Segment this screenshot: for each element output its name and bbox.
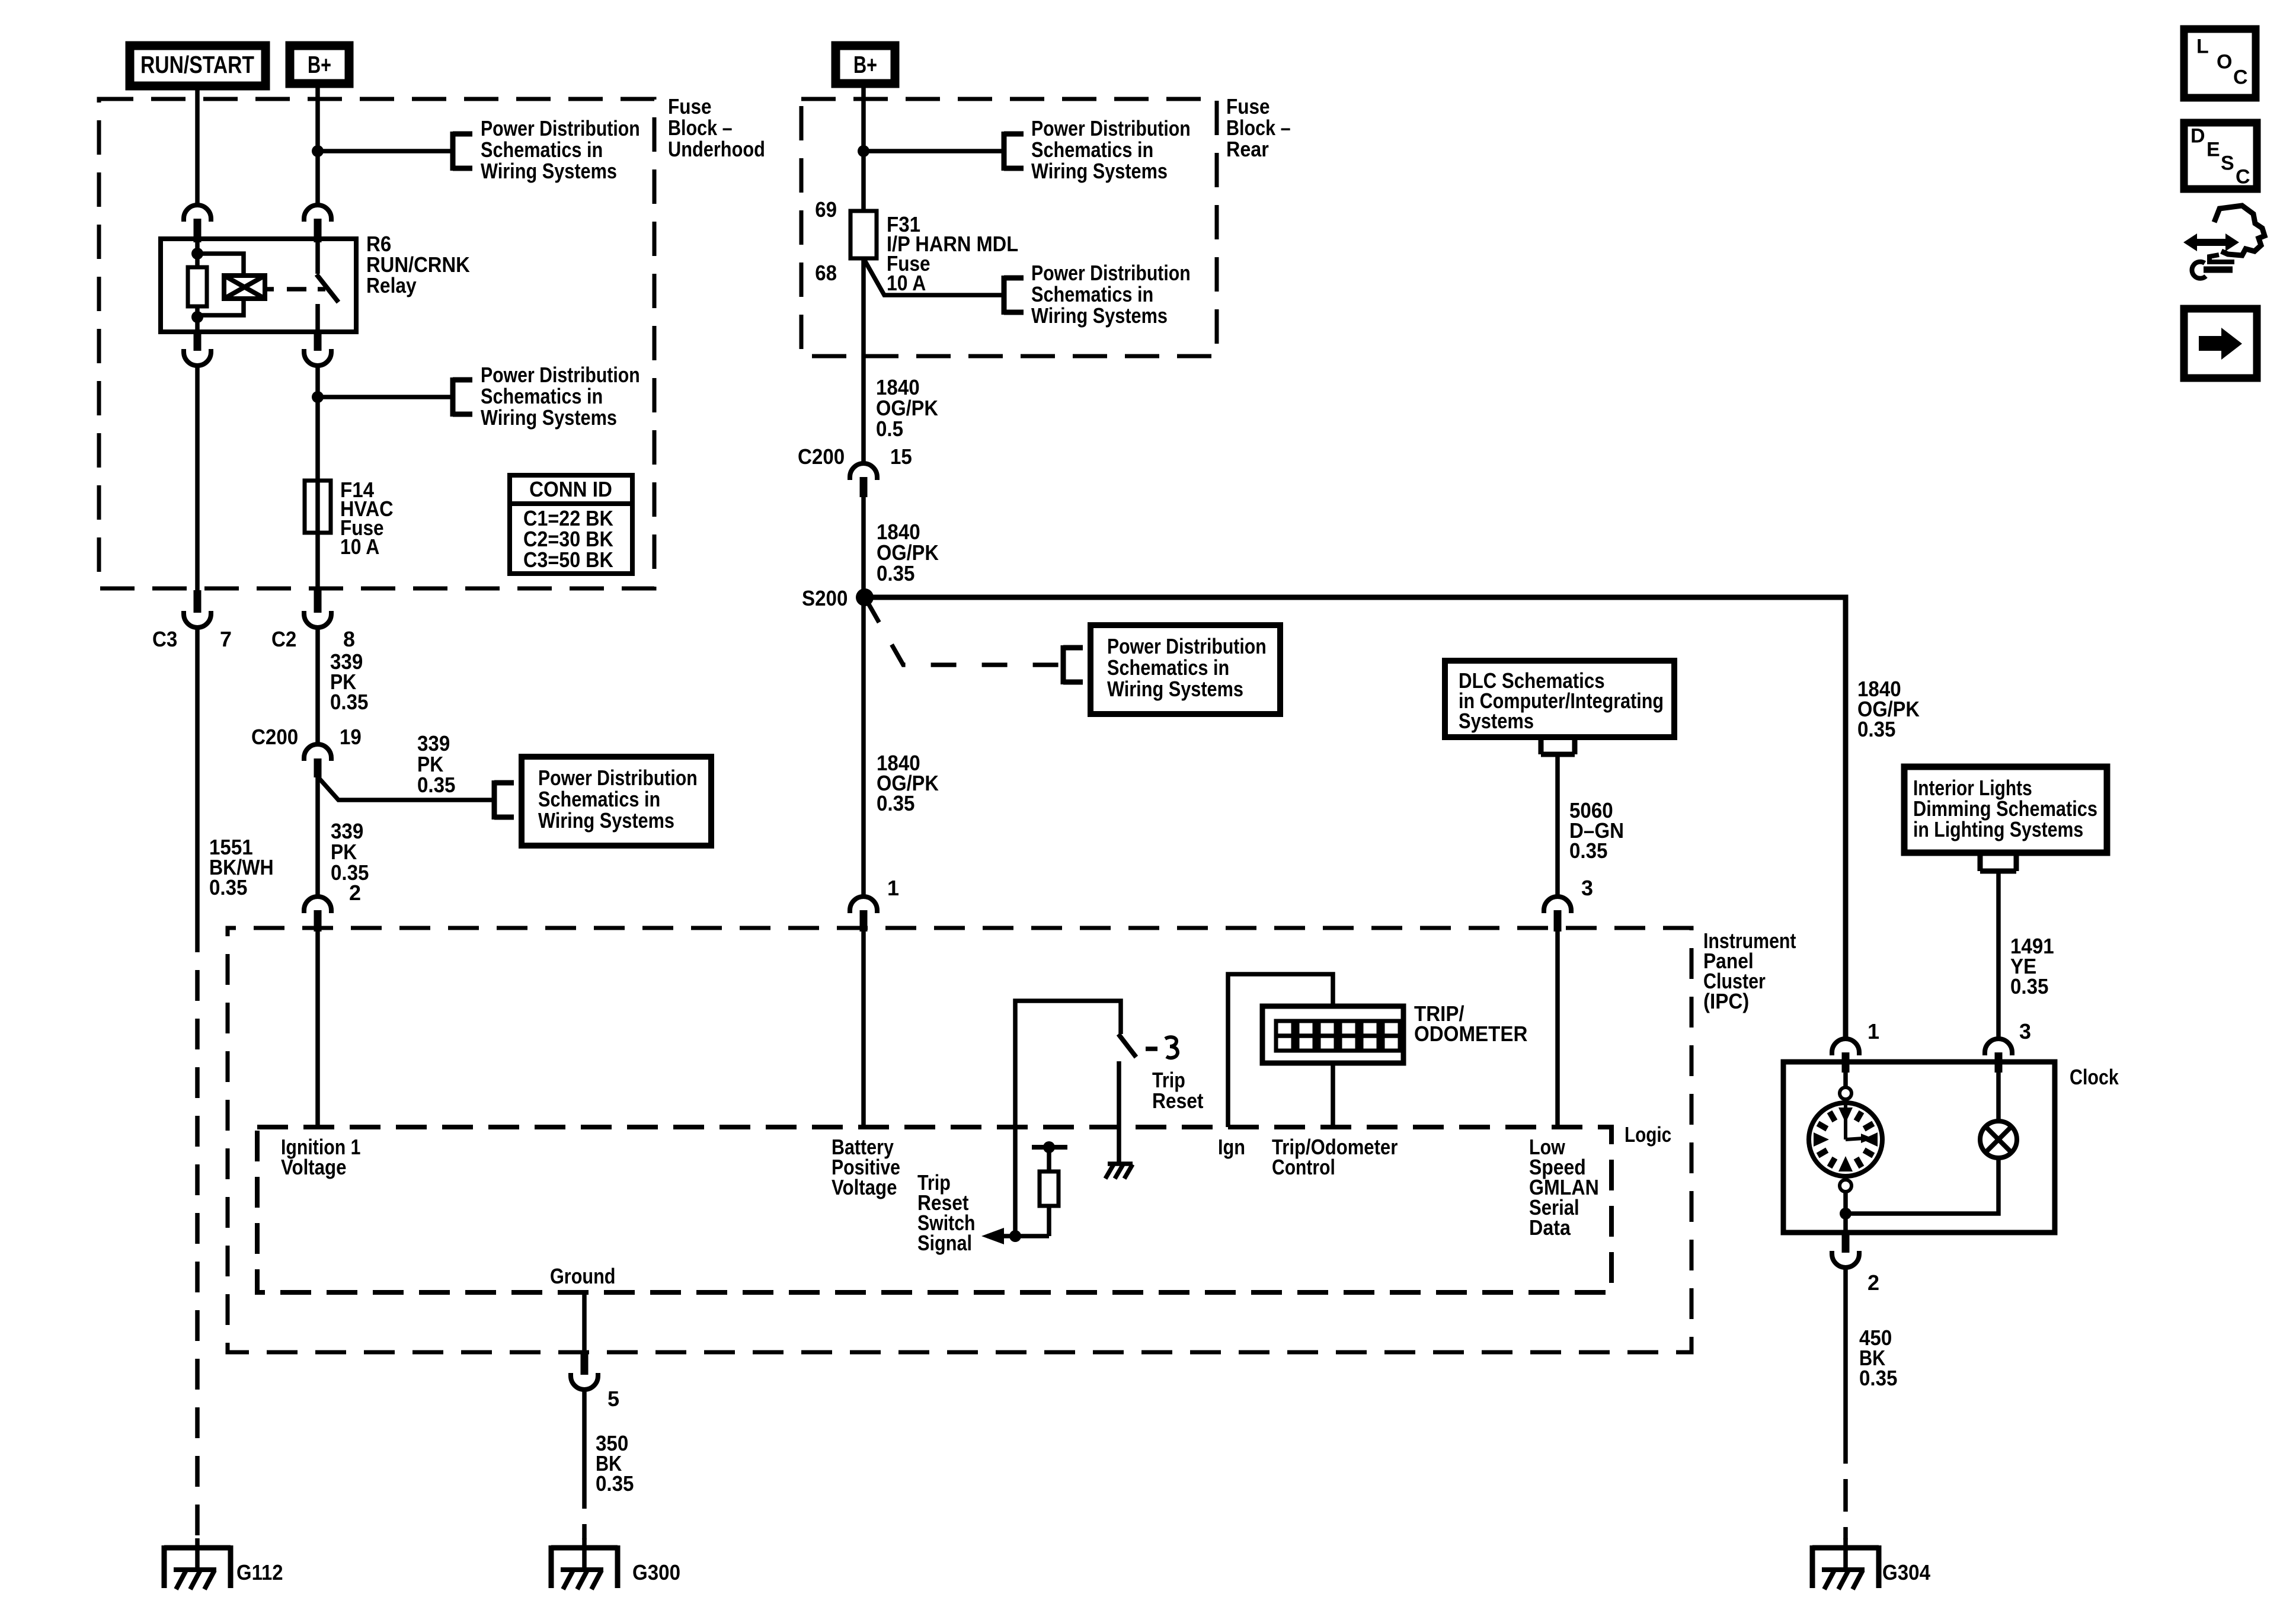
DLC schematics reference box	[1445, 661, 1674, 737]
relay R6 coil branch wires	[197, 239, 244, 276]
svg-text:Power Distribution: Power Distribution	[481, 116, 640, 140]
label Low Speed GMLAN Serial Data	[1529, 1135, 1599, 1240]
relay R6 coil-side top connector	[184, 205, 211, 242]
ground G300	[551, 1538, 618, 1589]
wire S200 to clock branch (long horizontal)	[865, 597, 1846, 1039]
svg-text:Underhood: Underhood	[668, 137, 765, 161]
svg-text:15: 15	[890, 444, 912, 469]
svg-text:B+: B+	[853, 51, 877, 78]
connector clock pin 2 exit	[1832, 1233, 1859, 1267]
svg-text:0.35: 0.35	[330, 690, 369, 714]
label Trip/Odometer Control	[1272, 1135, 1398, 1179]
svg-text:0.35: 0.35	[596, 1471, 634, 1496]
svg-text:Wiring Systems: Wiring Systems	[1031, 303, 1168, 328]
svg-text:ODOMETER: ODOMETER	[1414, 1022, 1527, 1046]
wire ground logic to IPC boundary	[582, 1292, 587, 1352]
off-page reference bracket 5	[1004, 276, 1024, 315]
power feed box RUN/START	[130, 46, 266, 86]
svg-text:G112: G112	[236, 1560, 283, 1585]
relay R6 label	[366, 232, 470, 297]
svg-text:Reset: Reset	[1152, 1089, 1204, 1113]
wire odometer display to logic	[1331, 1063, 1335, 1127]
label clock pin 1	[1868, 1019, 1879, 1044]
wire resistor to signal node	[987, 1206, 1049, 1236]
svg-text:Fuse: Fuse	[668, 94, 712, 119]
label Ign	[1218, 1135, 1245, 1159]
DLC reference connector bracket	[1541, 737, 1575, 754]
relay R6 coil bottom wire	[197, 299, 244, 329]
svg-text:Voltage: Voltage	[832, 1175, 897, 1199]
svg-text:Power Distribution: Power Distribution	[1107, 634, 1267, 658]
wire junction to relay switch pin	[315, 151, 320, 205]
label Logic	[1625, 1122, 1671, 1147]
relay R6 coil-side bottom connector	[184, 329, 211, 366]
interior lights reference connector bracket	[1980, 854, 2016, 871]
signal arrow	[981, 1228, 1004, 1244]
instrument panel cluster label	[1703, 929, 1796, 1013]
wire IPC pin 2 to logic	[315, 932, 320, 1127]
label clock pin 2	[1868, 1270, 1879, 1295]
label clock pin 3	[2019, 1019, 2031, 1044]
relay R6 switch blade	[316, 274, 338, 302]
svg-text:Rear: Rear	[1226, 137, 1269, 161]
power feed box B+ (underhood)	[290, 46, 349, 84]
svg-text:G300: G300	[632, 1560, 680, 1585]
fuse F31 label	[887, 212, 1018, 295]
relay R6 switch fixed contact	[315, 239, 320, 274]
wire relay coil to fuse block exit C3-7	[195, 365, 200, 590]
svg-text:Wiring Systems: Wiring Systems	[1107, 677, 1243, 701]
ground G304	[1812, 1538, 1879, 1589]
label pin 1 (battery positive)	[887, 876, 899, 900]
svg-text:C2: C2	[271, 627, 296, 651]
svg-text:0.35: 0.35	[1857, 717, 1896, 741]
relay R6 switch lower contact	[315, 304, 320, 329]
fuse block underhood dashed boundary	[99, 99, 654, 588]
power distribution reference 6 box	[1091, 625, 1280, 714]
relay R6 coil junction dot top	[191, 248, 203, 260]
wire B+ box down to junction	[315, 84, 320, 151]
svg-text:Fuse: Fuse	[1226, 94, 1270, 119]
connector IPC pin 5 exit	[571, 1354, 598, 1390]
wire S200 down to IPC pin 1	[861, 597, 866, 897]
wire 450 BK to G304	[1843, 1267, 1848, 1539]
icon connector location view (arrows and wrench)	[2183, 206, 2265, 279]
power feed box B+ (rear)	[836, 46, 895, 84]
off-page reference bracket 3	[494, 780, 514, 820]
label 1551 BK/WH 0.35	[209, 835, 274, 900]
svg-text:19: 19	[340, 725, 362, 749]
svg-text:Wiring Systems: Wiring Systems	[1031, 159, 1168, 183]
svg-text:0.35: 0.35	[2010, 974, 2049, 998]
label C3	[152, 627, 177, 651]
wire C200-19 to IPC pin 2	[315, 777, 320, 897]
label 1840 OG/PK 0.35 above S200	[877, 520, 939, 585]
svg-text:2: 2	[1868, 1270, 1879, 1295]
junction dot B+ rear	[858, 145, 869, 157]
ground G112	[164, 1538, 231, 1589]
label 1840 OG/PK 0.35 right branch	[1857, 677, 1920, 741]
label pin 69	[815, 197, 837, 222]
label TRIP/ODOMETER	[1414, 1001, 1527, 1046]
svg-text:O: O	[2217, 50, 2232, 73]
label 350 BK 0.35	[596, 1431, 634, 1496]
icon LOC box	[2184, 29, 2256, 98]
svg-text:C3=50 BK: C3=50 BK	[523, 548, 613, 572]
relay R6 switch-side top connector	[304, 205, 331, 242]
wire IPC pin 3 to logic	[1555, 932, 1560, 1127]
label pin 68	[815, 261, 837, 285]
label 1840 OG/PK 0.5	[876, 375, 938, 441]
label Clock	[2070, 1065, 2119, 1089]
off-page reference bracket 2	[453, 377, 472, 417]
svg-text:Schematics in: Schematics in	[1031, 282, 1153, 306]
svg-text:Voltage: Voltage	[281, 1155, 347, 1179]
splice S200 junction dot	[856, 588, 874, 606]
power distribution reference 4 label	[1031, 116, 1191, 183]
label pin 8	[343, 627, 355, 651]
wire 1551 BK/WH dashed to G112	[195, 921, 200, 1539]
connector C2 pin 8 exit	[304, 590, 331, 628]
label G304	[1882, 1560, 1930, 1585]
svg-text:Power Distribution: Power Distribution	[481, 363, 640, 387]
wire 1491 YE to clock pin 3	[1996, 871, 2001, 1039]
svg-text:B+: B+	[308, 51, 331, 78]
svg-text:D: D	[2191, 124, 2205, 147]
svg-text:Schematics in: Schematics in	[481, 384, 603, 408]
svg-text:C3: C3	[152, 627, 177, 651]
off-page reference bracket 6	[1063, 645, 1083, 684]
label G112	[236, 1560, 283, 1585]
label 1491 YE 0.35	[2010, 934, 2054, 998]
junction dot B+ underhood	[312, 145, 324, 157]
svg-text:Systems: Systems	[1459, 709, 1534, 733]
label pin 7	[220, 627, 232, 651]
label 339 PK 0.35 lower	[331, 819, 369, 885]
label 1840 OG/PK 0.35 below S200	[877, 751, 939, 815]
wire junction to power distribution reference 1	[318, 149, 453, 153]
svg-text:C: C	[2236, 165, 2250, 188]
connector IPC pin 1 entry	[850, 897, 877, 932]
svg-text:Control: Control	[1272, 1155, 1335, 1179]
svg-text:S200: S200	[802, 586, 848, 610]
svg-text:Block –: Block –	[1226, 116, 1291, 140]
svg-text:C200: C200	[251, 725, 298, 749]
connector IPC pin 2 entry	[304, 897, 331, 932]
svg-text:Ign: Ign	[1218, 1135, 1245, 1159]
junction dot on crossbar	[1043, 1141, 1055, 1153]
svg-text:L: L	[2196, 35, 2209, 57]
odometer digit cells	[1276, 1021, 1400, 1051]
icon DESC box	[2184, 123, 2257, 189]
svg-text:8: 8	[343, 627, 355, 651]
wire junction to power distribution reference 4	[864, 149, 1004, 153]
fuse block rear dashed boundary	[801, 99, 1217, 356]
svg-text:0.35: 0.35	[877, 561, 915, 585]
fuse F14 label	[340, 478, 394, 559]
fuse F14	[305, 481, 331, 533]
svg-text:68: 68	[815, 261, 837, 285]
svg-text:69: 69	[815, 197, 837, 222]
wire crossbar to resistor	[1047, 1147, 1051, 1172]
svg-text:Data: Data	[1529, 1215, 1571, 1240]
relay R6 switch-side bottom connector	[304, 329, 331, 366]
resistor (pull-up)	[1040, 1172, 1059, 1206]
wire C200-15 to S200	[861, 497, 866, 597]
wire F31 down to C200-15	[861, 258, 866, 463]
svg-text:Power Distribution: Power Distribution	[538, 766, 698, 790]
trip reset switch blade	[1118, 1034, 1136, 1057]
svg-text:RUN/START: RUN/START	[140, 51, 254, 78]
wire relay switch to junction 2	[315, 365, 320, 397]
svg-text:S: S	[2221, 152, 2234, 174]
wire F31 to power distribution reference 5	[864, 258, 1004, 295]
relay R6 coil junction dot bottom	[191, 311, 203, 323]
label C2	[271, 627, 296, 651]
svg-text:Schematics in: Schematics in	[1031, 137, 1153, 162]
clock symbol	[1809, 1087, 1882, 1192]
CONN ID table	[510, 475, 632, 574]
svg-text:5: 5	[607, 1387, 619, 1411]
svg-text:0.35: 0.35	[417, 773, 456, 797]
svg-text:1: 1	[887, 876, 899, 900]
clock wires inside	[1846, 1073, 1998, 1233]
svg-text:Signal: Signal	[917, 1231, 972, 1255]
wire branch C200-19 to power distribution reference 3	[319, 778, 494, 800]
label 339 PK 0.35 branch	[417, 731, 456, 797]
svg-text:0.35: 0.35	[1859, 1366, 1898, 1390]
power distribution reference 1 label	[481, 116, 640, 183]
wire junction to fuse F31	[861, 151, 866, 211]
svg-text:G304: G304	[1882, 1560, 1930, 1585]
relay R6 box	[161, 239, 356, 332]
label pin 3 (GMLAN)	[1581, 876, 1593, 900]
wire B+ rear down to junction	[861, 84, 866, 151]
relay R6 coil (box with X)	[224, 276, 265, 299]
label Ground	[550, 1264, 616, 1288]
connector C200 pin 15 in-line	[850, 463, 877, 497]
label 5060 D-GN 0.35	[1569, 798, 1624, 863]
svg-text:Wiring Systems: Wiring Systems	[538, 808, 674, 833]
svg-text:Logic: Logic	[1625, 1122, 1671, 1147]
svg-text:2: 2	[349, 881, 361, 905]
connector clock pin 1 entry	[1832, 1039, 1859, 1073]
connector C3 pin 7 exit	[184, 590, 211, 628]
svg-text:Power Distribution: Power Distribution	[1031, 261, 1191, 285]
svg-text:0.35: 0.35	[209, 875, 248, 900]
svg-text:Relay: Relay	[366, 273, 417, 297]
connector C200 pin 19 in-line	[304, 744, 331, 777]
label pin 19	[340, 725, 362, 749]
svg-text:Schematics in: Schematics in	[1107, 655, 1229, 680]
interior lights dimming reference box	[1904, 767, 2107, 853]
svg-text:1: 1	[1868, 1019, 1879, 1044]
svg-text:E: E	[2207, 138, 2220, 161]
svg-text:CONN ID: CONN ID	[529, 477, 612, 501]
svg-text:(IPC): (IPC)	[1703, 989, 1749, 1013]
trip reset switch wires	[1015, 1001, 1121, 1236]
wire Ign to trip odometer display	[1228, 974, 1333, 1127]
power distribution reference 2 label	[481, 363, 640, 430]
label pin 5	[607, 1387, 619, 1411]
svg-text:0.35: 0.35	[877, 791, 915, 815]
svg-text:Schematics in: Schematics in	[538, 787, 660, 811]
svg-text:in Lighting Systems: in Lighting Systems	[1913, 817, 2083, 841]
wire DLC to IPC pin 3	[1555, 754, 1560, 897]
wire junction 2 to power distribution reference 2	[318, 395, 453, 399]
dashed wire S200 to power distribution reference 6	[866, 600, 1063, 665]
svg-text:Block –: Block –	[668, 116, 733, 140]
trip reset signal crossbar	[1032, 1145, 1067, 1150]
svg-text:Wiring Systems: Wiring Systems	[481, 159, 617, 183]
label Ignition 1 Voltage	[281, 1135, 360, 1179]
svg-text:Wiring Systems: Wiring Systems	[481, 405, 617, 430]
svg-text:10 A: 10 A	[887, 271, 926, 295]
label Trip Reset Switch Signal	[917, 1170, 976, 1255]
svg-text:C: C	[2233, 66, 2248, 88]
chassis ground at trip reset switch	[1105, 1164, 1133, 1179]
label C200 (19)	[251, 725, 298, 749]
trip reset switch lower contact	[1117, 1061, 1121, 1162]
fuse block rear label	[1226, 94, 1291, 161]
off-page reference bracket 1	[453, 132, 472, 171]
wire C2-8 to C200-19	[315, 628, 320, 744]
svg-text:0.35: 0.35	[1569, 838, 1608, 863]
svg-text:3: 3	[2019, 1019, 2031, 1044]
trip reset actuator linkage	[1146, 1037, 1178, 1058]
junction dot below relay	[312, 391, 324, 403]
label C200 (15)	[798, 444, 845, 469]
svg-text:Power Distribution: Power Distribution	[1031, 116, 1191, 140]
label Trip Reset	[1152, 1068, 1204, 1113]
clock illumination lamp	[1980, 1121, 2017, 1158]
off-page reference bracket 4	[1004, 132, 1024, 171]
svg-text:7: 7	[220, 627, 232, 651]
svg-text:0.5: 0.5	[876, 417, 903, 441]
power distribution reference 3 box	[522, 757, 711, 846]
svg-text:Schematics in: Schematics in	[481, 137, 603, 162]
trip/odometer display box	[1262, 1006, 1403, 1063]
fuse block underhood label	[668, 94, 765, 161]
instrument panel cluster dashed boundary	[228, 928, 1691, 1352]
connector clock pin 3 entry	[1985, 1039, 2012, 1073]
clock box	[1783, 1062, 2055, 1233]
svg-text:Ground: Ground	[550, 1264, 616, 1288]
svg-text:Clock: Clock	[2070, 1065, 2119, 1089]
junction dot clock bottom	[1840, 1208, 1851, 1219]
fuse F31	[850, 211, 877, 258]
label pin 15	[890, 444, 912, 469]
label S200	[802, 586, 848, 610]
icon forward arrow box	[2184, 309, 2257, 378]
label pin 2 (ignition 1 voltage)	[349, 881, 361, 905]
svg-text:3: 3	[1581, 876, 1593, 900]
svg-text:10 A: 10 A	[340, 534, 379, 559]
wire junction 2 to fuse F14	[315, 397, 320, 590]
wire 350 BK to G300	[582, 1389, 587, 1539]
label Battery Positive Voltage	[832, 1135, 900, 1199]
IPC logic inner dashed boundary	[257, 1127, 1611, 1292]
junction dot signal node	[1009, 1230, 1021, 1242]
label G300	[632, 1560, 680, 1585]
label 450 BK 0.35	[1859, 1326, 1898, 1390]
wire C3-7 down (solid part)	[195, 628, 200, 921]
relay R6 linkage dashes	[265, 287, 325, 292]
wire RUN/START to relay R6 coil pin	[195, 86, 200, 205]
relay R6 resistor	[188, 267, 207, 306]
wire IPC pin 1 to logic	[861, 932, 866, 1127]
label 339 PK 0.35 upper	[330, 649, 369, 714]
power distribution reference 5 label	[1031, 261, 1191, 328]
svg-text:C200: C200	[798, 444, 845, 469]
connector IPC pin 3 entry	[1544, 897, 1571, 932]
